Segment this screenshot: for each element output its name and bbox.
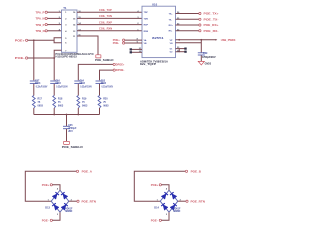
svg-text:POE-: POE- xyxy=(113,41,119,45)
shield symbol bottom xyxy=(64,141,70,144)
transformer T1 body xyxy=(62,6,78,53)
svg-text:POE_SHIELD: POE_SHIELD xyxy=(62,147,83,149)
svg-text:TPB_P: TPB_P xyxy=(36,23,45,27)
wire C17 to R17 xyxy=(33,84,35,96)
resistor R20 xyxy=(98,96,109,109)
wire POE+ to D13 top xyxy=(53,185,61,190)
diode D13b xyxy=(61,192,68,199)
wire U10 VP to USB_PWR3 xyxy=(176,39,218,41)
wire POE- to T1 pin 7 xyxy=(28,50,62,58)
svg-text:U10: U10 xyxy=(152,2,158,6)
svg-text:C39: C39 xyxy=(203,52,208,55)
svg-text:4700pF/2KV: 4700pF/2KV xyxy=(202,56,216,59)
diode D13a xyxy=(52,192,59,199)
wire R20 to bus xyxy=(99,108,101,115)
wire R17 to bus xyxy=(33,108,35,115)
wire R19 to bus xyxy=(77,108,79,115)
svg-text:POE_TX+: POE_TX+ xyxy=(204,12,220,16)
svg-text:POE_SHIELD: POE_SHIELD xyxy=(95,60,114,62)
wire POE+ to U10 xyxy=(125,39,142,41)
diode D14c xyxy=(161,203,168,210)
capacitor C17 xyxy=(30,79,48,88)
wire drop to C39 xyxy=(200,40,202,53)
wire U10 TX+ to port xyxy=(176,12,199,14)
wire POE+ down to C17 xyxy=(33,40,35,80)
port POE+ bridge2 xyxy=(151,183,162,187)
U10 nc stub pin 11 xyxy=(130,48,142,51)
wire TPA_P to T1 pin 1 xyxy=(47,11,61,13)
svg-text:0.22uF/100V: 0.22uF/100V xyxy=(102,87,114,89)
svg-text:POE_RTN: POE_RTN xyxy=(191,199,206,203)
diode D14a xyxy=(161,192,168,199)
svg-text:DPOE-: DPOE- xyxy=(116,68,125,72)
port POE_RX+ xyxy=(199,23,219,27)
svg-text:TPA_N: TPA_N xyxy=(36,17,45,21)
port TPB_N xyxy=(36,29,48,33)
port TPA_N xyxy=(36,17,48,21)
wire POE_B loop xyxy=(134,171,185,201)
svg-text:ADM/TEK 7V88/EB/1A: ADM/TEK 7V88/EB/1A xyxy=(140,60,168,63)
svg-text:T1: T1 xyxy=(63,6,67,10)
svg-text:POE-: POE- xyxy=(15,56,25,60)
svg-text:TDP: TDP xyxy=(144,12,149,14)
svg-text:0603: 0603 xyxy=(80,82,86,85)
svg-text:MMBD: MMBD xyxy=(65,211,72,213)
port POE- at U10 xyxy=(113,41,125,45)
port POE_RTN left xyxy=(77,199,96,203)
svg-text:COIL_RXP: COIL_RXP xyxy=(99,20,112,24)
wire COIL_TXP T1 to U10 xyxy=(77,8,142,13)
svg-text:0603: 0603 xyxy=(82,105,88,108)
port POE_RTN right xyxy=(186,199,205,203)
port DPOE+ xyxy=(113,63,125,67)
resistor R19 xyxy=(77,96,88,109)
port POE+ left xyxy=(15,39,28,43)
wire POE- to D14 bottom xyxy=(162,212,170,220)
svg-text:POE_B: POE_B xyxy=(191,170,201,174)
wire DPOE- feed col4 xyxy=(100,70,114,80)
svg-text:POE_RX+: POE_RX+ xyxy=(204,23,220,27)
wire bus to C35 xyxy=(66,115,68,127)
svg-text:82x_TQFP: 82x_TQFP xyxy=(140,64,157,66)
transformer T1 part text xyxy=(55,53,94,59)
port POE+ bridge1 xyxy=(42,183,53,187)
svg-text:PULSE/COOPER/BEL/HALO/YC: PULSE/COOPER/BEL/HALO/YC xyxy=(55,53,94,56)
svg-text:D14: D14 xyxy=(154,206,159,209)
port POE_RX- xyxy=(199,29,219,33)
wire U10 RX+ to port xyxy=(176,24,199,26)
wire C39 to chassis xyxy=(200,55,202,61)
port POE_B xyxy=(185,170,201,174)
wire POE+ to D14 top xyxy=(162,185,170,190)
svg-text:D13: D13 xyxy=(45,206,50,209)
U10 nc stub pin 12 xyxy=(130,51,142,54)
junction POE+ col1 xyxy=(33,39,35,41)
junction bus center xyxy=(66,114,68,116)
svg-text:USB_PWR3: USB_PWR3 xyxy=(221,38,236,42)
svg-text:0603: 0603 xyxy=(103,105,109,108)
junction bus col2 xyxy=(53,114,55,116)
D14 corner pins xyxy=(157,188,182,216)
svg-text:COIL_TXN: COIL_TXN xyxy=(99,14,112,18)
diode D14d xyxy=(170,203,177,210)
diode D14b xyxy=(170,192,177,199)
svg-text:RDN: RDN xyxy=(144,31,149,33)
svg-text:POE_TX-: POE_TX- xyxy=(204,18,219,22)
svg-text:POE_RX-: POE_RX- xyxy=(204,29,219,33)
wire TPA_N to T1 pin 2 xyxy=(47,17,61,19)
svg-text:COIL_TXP: COIL_TXP xyxy=(99,8,112,12)
junction POE- col2 xyxy=(53,57,55,59)
wire U10 TX- to port xyxy=(176,18,199,20)
capacitor C35 xyxy=(63,124,77,133)
wire TPB_N to T1 pin 4 xyxy=(47,28,61,31)
U10 ground stubs G1 G2 xyxy=(176,47,187,53)
D13 part text xyxy=(65,208,73,213)
svg-text:VB: VB xyxy=(144,43,147,45)
svg-text:MMBD: MMBD xyxy=(173,211,180,213)
port POE- bridge1 xyxy=(42,219,53,223)
capacitor C13 xyxy=(96,79,114,88)
svg-text:0603: 0603 xyxy=(55,82,61,85)
wire POE- to D13 bottom xyxy=(53,212,61,220)
svg-text:TPB_N: TPB_N xyxy=(36,29,45,33)
svg-text:0603: 0603 xyxy=(35,82,41,85)
wire U10 RX- to port xyxy=(176,29,199,31)
wire bottom bus xyxy=(34,114,100,116)
svg-text:0.22uF/100V: 0.22uF/100V xyxy=(80,87,92,89)
capacitor C16 xyxy=(50,79,68,88)
svg-text:POE_A: POE_A xyxy=(82,170,92,174)
wire COIL_RXN T1 to U10 xyxy=(77,27,142,32)
svg-text:0.22uF/100V: 0.22uF/100V xyxy=(36,87,48,89)
svg-text:POE+: POE+ xyxy=(15,39,25,43)
port POE- left xyxy=(15,56,28,60)
svg-text:0.22uF/100V: 0.22uF/100V xyxy=(56,87,68,89)
svg-text:POE+: POE+ xyxy=(151,183,159,187)
wire POE- to U10 xyxy=(125,42,142,44)
IC U10 part text xyxy=(140,60,168,66)
capacitor C39 xyxy=(198,52,208,55)
svg-text:DPOE+: DPOE+ xyxy=(116,63,125,67)
port TPA_P xyxy=(36,10,48,14)
junction bus col3 xyxy=(77,114,79,116)
svg-text:0603: 0603 xyxy=(58,105,64,108)
svg-text:GND3: GND3 xyxy=(205,64,212,66)
port DPOE- xyxy=(113,68,124,72)
svg-text:POE-: POE- xyxy=(42,219,49,223)
wire U10 VN to C39 xyxy=(176,42,202,44)
svg-text:82551: 82551 xyxy=(152,36,164,40)
wire POE- down to C16 xyxy=(53,58,55,80)
svg-text:0603: 0603 xyxy=(101,82,107,85)
svg-text:0603: 0603 xyxy=(38,105,44,108)
resistor R17 xyxy=(32,96,43,109)
wire C13 to R20 xyxy=(99,84,101,96)
wire DPOE+ feed col3 xyxy=(78,64,113,80)
svg-text:H1102/PE-68515: H1102/PE-68515 xyxy=(55,57,77,59)
diamond D13 frame xyxy=(45,190,69,212)
chassis ground GND3 xyxy=(198,61,212,65)
wire D13 right to POE_RTN xyxy=(69,200,77,202)
svg-text:VN: VN xyxy=(170,43,173,45)
svg-text:RDP: RDP xyxy=(144,25,149,27)
resistor R18 xyxy=(53,96,64,109)
wire POE+ to T1 pins 5,6 xyxy=(28,38,62,43)
shield symbol at T1 xyxy=(96,55,101,58)
D13 corner pins xyxy=(48,188,73,216)
svg-text:POE+: POE+ xyxy=(42,183,50,187)
port POE_TX- xyxy=(199,18,219,22)
capacitor C14 xyxy=(74,79,92,88)
wire C35 to shield xyxy=(66,129,68,141)
port POE_TX+ xyxy=(199,12,219,16)
svg-text:POE_RTN: POE_RTN xyxy=(82,199,97,203)
junction G stub riser xyxy=(178,39,180,41)
port POE_A xyxy=(76,170,92,174)
wire R18 to bus xyxy=(53,108,55,115)
junction C39 drop xyxy=(200,39,202,41)
D14 part text xyxy=(173,208,181,213)
svg-text:COIL_RXN: COIL_RXN xyxy=(99,27,112,31)
svg-text:RX-: RX- xyxy=(169,31,173,33)
wire POE_A loop xyxy=(25,171,76,201)
svg-text:2KV: 2KV xyxy=(68,130,73,133)
diode D13d xyxy=(61,203,68,210)
wire COIL_RXP T1 to U10 xyxy=(77,20,142,25)
port POE- bridge2 xyxy=(151,219,162,223)
svg-text:TDN: TDN xyxy=(144,18,149,20)
port POE+ at U10 xyxy=(113,38,125,42)
wire T1 pin 11 to shield xyxy=(77,35,98,55)
svg-text:TPA_P: TPA_P xyxy=(36,10,45,14)
diamond D14 frame xyxy=(154,190,178,212)
wire C16 to R18 xyxy=(53,84,55,96)
IC U10 body xyxy=(142,2,176,57)
wire TPB_P to T1 pin 3 xyxy=(47,23,61,25)
wire COIL_TXN T1 to U10 xyxy=(77,14,142,19)
wire C14 to R19 xyxy=(77,84,79,96)
port TPB_P xyxy=(36,23,48,27)
svg-text:TX-: TX- xyxy=(169,19,173,21)
wire D14 right to POE_RTN xyxy=(178,200,186,202)
svg-text:POE-: POE- xyxy=(151,219,158,223)
diode D13c xyxy=(52,203,59,210)
